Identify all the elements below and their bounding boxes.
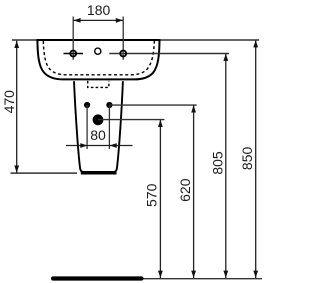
svg-text:850: 850 <box>239 147 255 171</box>
svg-text:570: 570 <box>143 183 159 207</box>
svg-text:805: 805 <box>209 151 225 175</box>
svg-text:620: 620 <box>177 178 193 202</box>
svg-text:180: 180 <box>87 2 111 18</box>
svg-text:80: 80 <box>90 127 106 143</box>
svg-text:470: 470 <box>1 90 17 114</box>
